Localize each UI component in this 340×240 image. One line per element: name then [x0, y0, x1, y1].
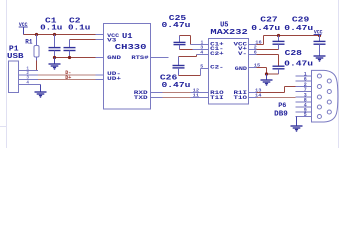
junction R1 top	[35, 33, 38, 36]
capacitor C26 top stem	[178, 57, 180, 66]
junction gnd node	[265, 72, 268, 75]
U5 right pin stub	[249, 67, 257, 69]
sheet border left	[6, 0, 8, 148]
U5 right pin stub	[249, 49, 257, 51]
C25 bottom stem	[179, 45, 181, 50]
power port VCC right	[314, 30, 324, 36]
ground C29	[314, 56, 326, 61]
DB9 pin 9 stub	[296, 108, 312, 114]
USB pin4 drop	[40, 85, 42, 93]
USB pin 4	[19, 80, 41, 86]
svg-text:0.47u: 0.47u	[251, 25, 280, 33]
capacitor C25 plates	[174, 42, 186, 44]
svg-text:0.1u: 0.1u	[40, 25, 62, 33]
wire C27 bottom to pin2	[257, 44, 279, 49]
IC U5 MAX232 box	[209, 39, 249, 105]
svg-text:4: 4	[200, 50, 203, 56]
svg-text:TXD: TXD	[134, 95, 148, 101]
ground left rail	[49, 64, 61, 69]
svg-text:T1I: T1I	[210, 95, 224, 101]
USB pin 1	[19, 66, 39, 72]
svg-text:6: 6	[254, 50, 257, 56]
svg-text:V-: V-	[238, 51, 247, 57]
ground stem MAX232	[266, 74, 268, 80]
junction C2 bottom	[68, 56, 71, 59]
wire VCC rail left	[24, 34, 96, 36]
DB9 hole pin 3	[317, 95, 321, 99]
svg-text:T1O: T1O	[234, 95, 248, 101]
DB9 hole pin 6	[327, 79, 331, 83]
DB9 hole pin 5	[317, 114, 321, 118]
svg-text:0.47u: 0.47u	[162, 82, 191, 90]
wire TXD to T1I	[151, 97, 209, 99]
DB9 hole pin 4	[317, 105, 321, 109]
svg-text:RTS#: RTS#	[131, 55, 148, 61]
C1 bottom stem	[54, 51, 56, 58]
capacitor C27 stem	[278, 36, 280, 42]
svg-text:CH330: CH330	[115, 44, 147, 52]
svg-text:V3: V3	[107, 38, 116, 44]
wire C25 bottom to pin3	[180, 49, 209, 51]
wire GND rail left	[55, 57, 96, 59]
wire C25 top jog to pin1	[180, 36, 209, 45]
DB9 pin 2 stub	[296, 82, 312, 88]
connector P6 DB9 shell	[312, 70, 338, 122]
U1 pin RTS#	[151, 57, 169, 59]
U1 pin UD+ stub	[96, 79, 104, 81]
DB9 hole pin 9	[327, 110, 331, 114]
connector P1 USB body	[9, 61, 19, 93]
wire R1 to USB pin1	[36, 61, 38, 71]
capacitor C1 stem	[54, 35, 56, 48]
svg-text:C2+: C2+	[210, 51, 224, 57]
svg-text:D+: D+	[65, 75, 71, 81]
svg-text:0.1u: 0.1u	[68, 25, 90, 33]
junction C27 top	[277, 34, 280, 37]
wire pin6 to C28	[257, 55, 279, 67]
capacitor C2 plates	[64, 48, 76, 51]
C2 bottom stem	[69, 51, 71, 58]
DB9 pin 5 stub	[296, 112, 312, 118]
DB9 pin 3 stub	[296, 93, 312, 99]
DB9 hole pin 7	[327, 89, 331, 93]
svg-text:U1: U1	[122, 33, 133, 41]
C28 bottom stem	[267, 69, 279, 74]
wire pin15 to gnd node	[257, 68, 267, 75]
svg-text:GND: GND	[235, 66, 247, 72]
wire RXD to R1O	[151, 92, 209, 94]
wire C26 bottom jog to pin5	[179, 69, 209, 76]
svg-text:C27: C27	[260, 17, 277, 25]
ground USB	[35, 92, 47, 97]
U1 pin V3 stub	[96, 39, 104, 41]
capacitor C1 plates	[49, 48, 61, 51]
junction C1 bottom	[53, 56, 56, 59]
wire C26 top jog to pin4	[179, 55, 209, 57]
capacitor C27 plates	[273, 41, 285, 44]
svg-text:0.47u: 0.47u	[284, 25, 313, 33]
svg-text:C29: C29	[292, 17, 309, 25]
sheet tick bottom left	[0, 126, 7, 128]
svg-text:0.47u: 0.47u	[162, 22, 191, 30]
capacitor C28 plates	[273, 66, 285, 69]
USB pin 2	[19, 70, 39, 76]
wire V3 to C2	[70, 39, 96, 41]
DB9 pin 1 stub	[296, 72, 312, 78]
DB9 pin 8 stub	[296, 98, 312, 104]
ground MAX232	[261, 80, 273, 85]
DB9 pin 7 stub	[296, 87, 312, 93]
DB9 pin 6 stub	[296, 77, 312, 83]
wire D+	[38, 79, 96, 81]
svg-text:C28: C28	[285, 50, 302, 58]
capacitor C29 stem	[319, 36, 321, 42]
wire pin16 to VCC rail	[257, 36, 264, 45]
svg-text:5: 5	[200, 64, 203, 70]
IC U1 CH330 box	[104, 24, 151, 110]
capacitor C2 stem	[69, 40, 71, 48]
svg-text:P6: P6	[278, 102, 286, 110]
wire pin13 to DB9 pin2	[257, 87, 296, 93]
junction C29 top	[318, 34, 321, 37]
junction C1 top	[53, 33, 56, 36]
svg-text:11: 11	[193, 93, 200, 99]
DB9 pin 4 stub	[296, 103, 312, 109]
U1 pin VCC stub	[96, 34, 104, 36]
svg-text:DB9: DB9	[274, 110, 288, 118]
ground stem left rail	[54, 58, 56, 65]
svg-text:MAX232: MAX232	[210, 29, 248, 37]
U5 right pin stub	[249, 92, 257, 94]
svg-text:0.47u: 0.47u	[284, 61, 313, 69]
USB pin 3	[19, 75, 39, 81]
wire VCC rail right	[264, 35, 320, 37]
U1 pin UD- stub	[96, 74, 104, 76]
capacitor C26 plates	[173, 66, 185, 68]
C29 bottom stem	[319, 44, 321, 56]
svg-text:R1: R1	[25, 38, 32, 45]
wire D-	[38, 74, 96, 76]
U5 right pin stub	[249, 54, 257, 56]
wire pin14 to DB9 pin3	[257, 97, 296, 99]
DB9 hole pin 1	[317, 74, 321, 78]
svg-text:4: 4	[26, 80, 29, 86]
ground DB9	[291, 126, 303, 131]
svg-text:UD+: UD+	[107, 76, 121, 82]
U1 pin GND stub	[96, 57, 104, 59]
capacitor C25 top stem	[179, 36, 181, 43]
wire DB9 pin5 to ground	[296, 117, 298, 127]
DB9 hole pin 8	[327, 100, 331, 104]
svg-text:C2-: C2-	[210, 65, 224, 71]
capacitor C29 plates	[314, 41, 326, 44]
resistor R1	[34, 35, 39, 61]
C26 bottom stem	[178, 68, 180, 76]
DB9 hole pin 2	[317, 84, 321, 88]
U5 right pin stub	[249, 97, 257, 99]
svg-text:5: 5	[304, 112, 307, 118]
U5 right pin stub	[249, 44, 257, 46]
sheet border right	[338, 0, 340, 148]
svg-text:USB: USB	[7, 53, 24, 61]
power port VCC left	[19, 22, 29, 34]
svg-text:GND: GND	[107, 55, 121, 61]
